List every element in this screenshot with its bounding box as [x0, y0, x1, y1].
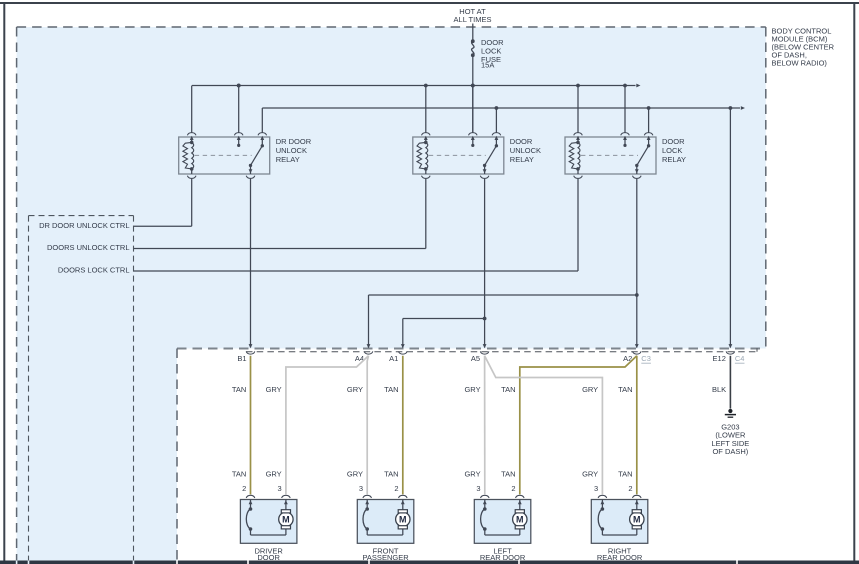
svg-text:M: M — [282, 515, 290, 525]
svg-text:TAN: TAN — [501, 470, 515, 479]
svg-text:GRY: GRY — [347, 385, 363, 394]
svg-text:DR DOOR: DR DOOR — [276, 137, 312, 146]
svg-text:C4: C4 — [735, 354, 745, 363]
svg-text:GRY: GRY — [266, 385, 282, 394]
svg-text:TAN: TAN — [501, 385, 515, 394]
svg-text:GRY: GRY — [347, 470, 363, 479]
svg-text:OF DASH): OF DASH) — [712, 447, 748, 456]
svg-text:RELAY: RELAY — [510, 155, 534, 164]
svg-text:RELAY: RELAY — [662, 155, 686, 164]
svg-text:BELOW RADIO): BELOW RADIO) — [772, 59, 828, 68]
svg-text:M: M — [633, 515, 641, 525]
svg-text:GRY: GRY — [464, 385, 480, 394]
svg-text:BLK: BLK — [712, 385, 726, 394]
svg-text:TAN: TAN — [384, 470, 398, 479]
svg-text:A1: A1 — [389, 354, 398, 363]
svg-text:GRY: GRY — [266, 470, 282, 479]
svg-text:2: 2 — [394, 484, 398, 493]
svg-text:DOORS UNLOCK CTRL: DOORS UNLOCK CTRL — [47, 243, 130, 252]
svg-text:2: 2 — [242, 484, 246, 493]
svg-text:3: 3 — [278, 484, 282, 493]
svg-text:A5: A5 — [471, 354, 480, 363]
svg-text:TAN: TAN — [384, 385, 398, 394]
svg-text:2: 2 — [628, 484, 632, 493]
svg-text:TAN: TAN — [618, 385, 632, 394]
svg-text:DOORS LOCK CTRL: DOORS LOCK CTRL — [58, 266, 130, 275]
svg-text:15A: 15A — [481, 60, 494, 69]
svg-text:3: 3 — [594, 484, 598, 493]
svg-text:TAN: TAN — [232, 470, 246, 479]
svg-text:M: M — [399, 515, 407, 525]
svg-text:RELAY: RELAY — [276, 155, 300, 164]
svg-text:TAN: TAN — [618, 470, 632, 479]
svg-text:2: 2 — [511, 484, 515, 493]
svg-text:LOCK: LOCK — [662, 146, 682, 155]
svg-text:DR DOOR UNLOCK CTRL: DR DOOR UNLOCK CTRL — [39, 221, 129, 230]
svg-text:DOOR: DOOR — [510, 137, 533, 146]
svg-text:TAN: TAN — [232, 385, 246, 394]
svg-text:E12: E12 — [713, 354, 726, 363]
svg-text:ALL TIMES: ALL TIMES — [454, 15, 492, 24]
svg-text:B1: B1 — [237, 354, 246, 363]
svg-text:3: 3 — [476, 484, 480, 493]
svg-text:C3: C3 — [641, 354, 651, 363]
svg-text:DOOR: DOOR — [662, 137, 685, 146]
svg-text:M: M — [516, 515, 524, 525]
svg-text:GRY: GRY — [464, 470, 480, 479]
svg-text:GRY: GRY — [582, 470, 598, 479]
svg-text:UNLOCK: UNLOCK — [510, 146, 541, 155]
svg-text:GRY: GRY — [582, 385, 598, 394]
svg-text:UNLOCK: UNLOCK — [276, 146, 307, 155]
svg-text:3: 3 — [359, 484, 363, 493]
